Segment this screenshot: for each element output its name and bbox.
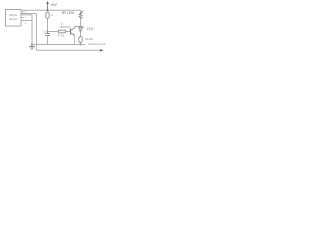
wire: GND pin down (V2) bbox=[31, 15, 33, 45]
svg-text:Control input: Control input bbox=[88, 42, 106, 46]
svg-text:BC547: BC547 bbox=[61, 25, 71, 29]
wire: LED to R4 bbox=[80, 31, 82, 37]
resistor R2 (base) 4.7k bbox=[58, 30, 66, 37]
ground bbox=[29, 45, 35, 50]
wire: R1 bottom to data node bbox=[47, 18, 49, 33]
wire: ground rail bbox=[32, 44, 85, 46]
wire: rail left bend down to pin 2 bbox=[22, 10, 24, 13]
wire: control line to output arrow bbox=[37, 42, 106, 52]
wire: VCC pin down (V1) bbox=[36, 14, 38, 51]
wire: R3 to LED bbox=[80, 19, 82, 28]
svg-text:+5V: +5V bbox=[50, 2, 57, 7]
wire: +5V rail bbox=[23, 9, 81, 11]
node: rail / R1 junction bbox=[47, 9, 49, 11]
resistor R1 (pull-up) bbox=[46, 12, 55, 18]
svg-text:C1: C1 bbox=[43, 29, 46, 33]
node: data junction bbox=[47, 31, 49, 33]
svg-text:LED: LED bbox=[87, 27, 94, 31]
sensor box U1 bbox=[6, 10, 22, 27]
wire: base wire from data node bbox=[48, 31, 59, 33]
svg-text:100 Ohm: 100 Ohm bbox=[85, 37, 94, 41]
wire: rail right bend down bbox=[80, 10, 82, 12]
svg-text:IR LED: IR LED bbox=[62, 11, 75, 15]
resistor R4 (100 Ohm) bbox=[79, 37, 94, 43]
wire: C1 bottom to ground rail bbox=[47, 36, 49, 45]
wire: emitter to ground rail bbox=[74, 35, 76, 44]
wire: collector jog to LED chain bbox=[75, 27, 81, 29]
wire: R2 to base bbox=[66, 31, 71, 33]
svg-text:4.7k: 4.7k bbox=[58, 33, 65, 37]
capacitor C1 bbox=[43, 29, 50, 35]
resistor R3 (zigzag, 220) bbox=[62, 11, 83, 19]
pin 3 wire (DATA) bbox=[21, 14, 32, 16]
node: R4 / rail junction bbox=[80, 44, 82, 46]
pin 5 stub (NC) bbox=[21, 16, 27, 19]
pin 2 stub (VCC) bbox=[21, 10, 37, 14]
transistor Q1 BC547 bbox=[60, 22, 74, 36]
wire: R4 to ground rail bbox=[80, 43, 82, 45]
node: collector / LED chain junction bbox=[80, 26, 82, 28]
pin 4 stub (GND) bbox=[21, 21, 32, 26]
svg-text:Sensor: Sensor bbox=[9, 17, 17, 21]
node: ground junction bbox=[31, 44, 33, 46]
+5V power symbol bbox=[46, 1, 57, 10]
LED D1 bbox=[79, 26, 94, 31]
